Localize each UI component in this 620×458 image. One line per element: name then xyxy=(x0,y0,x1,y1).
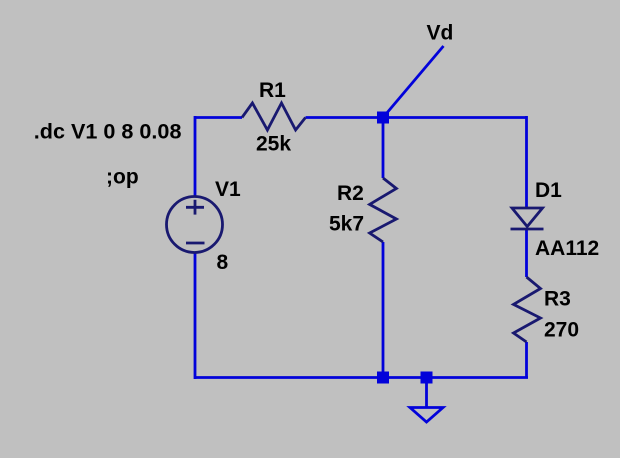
ground symbol xyxy=(410,378,443,423)
wire: R1 right side to node Vd junction and on to top-right corner xyxy=(306,116,527,119)
svg-text:8: 8 xyxy=(217,251,229,274)
svg-text:R1: R1 xyxy=(259,79,286,102)
svg-text:;op: ;op xyxy=(106,166,139,189)
V1 minus sign xyxy=(186,242,205,245)
junction: R2 bottom on rail xyxy=(377,372,389,384)
wire: left vertical from top corner down to V1 top pin xyxy=(194,116,197,197)
wire: bottom horizontal rail xyxy=(195,376,528,379)
wire: V1 bottom pin down to bottom rail xyxy=(194,252,197,379)
svg-text:5k7: 5k7 xyxy=(329,213,364,236)
svg-text:270: 270 xyxy=(544,318,579,341)
resistor R2 (5k7) zigzag xyxy=(370,178,397,242)
wire: R2 branch top, from node Vd down to R2 xyxy=(382,118,385,179)
diode D1 cathode bar xyxy=(511,228,544,231)
svg-text:Vd: Vd xyxy=(427,22,454,45)
wire: right vertical from top-right corner down to diode D1 xyxy=(525,116,528,209)
svg-text:25k: 25k xyxy=(256,132,291,155)
svg-text:R2: R2 xyxy=(337,182,364,205)
svg-text:R3: R3 xyxy=(544,288,571,311)
wire: R3 bottom down to bottom-right corner xyxy=(525,342,528,378)
diode D1 triangle xyxy=(512,208,543,227)
resistor R3 (270) zigzag xyxy=(514,277,541,342)
wire: diode D1 cathode down to R3 xyxy=(525,228,528,277)
resistor R1 (25k) zigzag xyxy=(242,103,306,130)
wire: top-left horizontal from corner to R1 xyxy=(195,116,242,119)
voltage source V1 circle xyxy=(167,197,223,253)
junction: ground tap on rail xyxy=(421,372,433,384)
svg-text:.dc V1 0 8 0.08: .dc V1 0 8 0.08 xyxy=(34,119,182,144)
wire: R2 bottom down to bottom rail xyxy=(382,242,385,378)
wire: diagonal net-label wire to Vd xyxy=(383,46,444,118)
svg-text:AA112: AA112 xyxy=(535,237,599,260)
node Vd junction square xyxy=(377,112,389,124)
svg-text:V1: V1 xyxy=(215,178,241,201)
svg-text:D1: D1 xyxy=(535,179,562,202)
V1 plus sign xyxy=(186,200,204,215)
